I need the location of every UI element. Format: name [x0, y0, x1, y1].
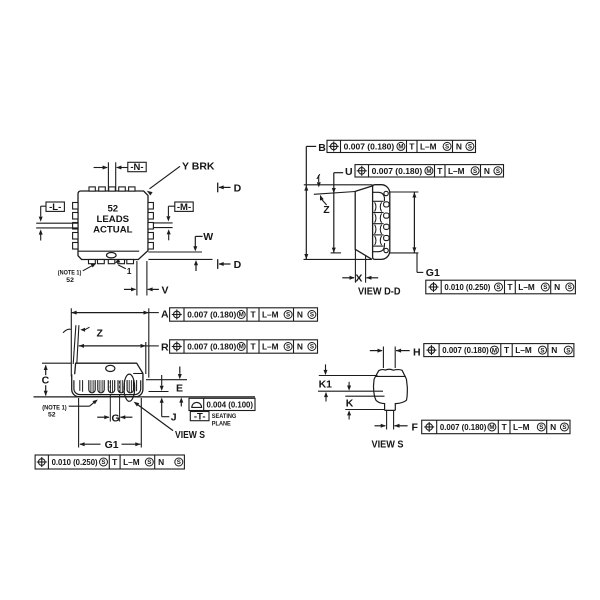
svg-text:M: M [398, 144, 403, 151]
svg-text:Z: Z [323, 204, 330, 216]
R arrow left [79, 344, 84, 348]
svg-text:S: S [566, 347, 570, 354]
E upper reference line [146, 379, 187, 381]
V dimension arrows [124, 288, 136, 290]
B label leader [306, 145, 316, 147]
F extension line right [393, 411, 395, 430]
U bottom extension line [331, 252, 341, 254]
svg-text:E: E [176, 382, 183, 394]
svg-text:T: T [437, 166, 443, 176]
left lead width lines [36, 222, 77, 224]
Z tick [317, 174, 320, 179]
A arrow right [144, 311, 149, 315]
H extension line right [394, 347, 396, 369]
-M- leader [168, 205, 174, 207]
NOTE 1 leader (front view) [69, 405, 90, 407]
A dimension line [71, 312, 149, 314]
-N- extension line right [115, 162, 117, 190]
K mid reference line [345, 395, 384, 397]
X extension line right [365, 256, 367, 283]
G extension line left (solid) [109, 397, 111, 422]
G1 bottom extension line [390, 252, 418, 254]
svg-text:L–M: L–M [262, 310, 279, 320]
svg-text:T: T [507, 282, 513, 292]
svg-text:N: N [158, 457, 164, 467]
svg-text:B: B [318, 142, 326, 154]
svg-text:S: S [101, 459, 105, 466]
K upper arrow [348, 382, 350, 386]
feature control frame F [422, 420, 570, 434]
svg-text:L–M: L–M [262, 342, 279, 352]
svg-text:N: N [554, 282, 560, 292]
svg-text:-T-: -T- [194, 411, 206, 422]
Z draft lines front view [73, 325, 76, 364]
svg-text:52: 52 [48, 412, 56, 419]
G1 dimension line [413, 192, 415, 253]
svg-text:M: M [426, 168, 431, 175]
datum -L- box [46, 202, 64, 211]
svg-text:SEATING: SEATING [212, 413, 237, 420]
svg-text:G: G [112, 412, 120, 424]
W lower arrow [194, 260, 198, 265]
feature control frame R [170, 340, 318, 353]
view S lead tip [385, 409, 396, 412]
svg-text:X: X [355, 272, 362, 284]
-N- dimension arrows [94, 167, 108, 169]
front view pin1 ellipse on top [106, 365, 115, 371]
top view left-side leads [73, 203, 78, 210]
svg-text:N: N [484, 166, 490, 176]
svg-text:L–M: L–M [515, 345, 532, 355]
svg-text:L–M: L–M [123, 457, 140, 467]
G extension line right (dashed) [119, 381, 121, 397]
U label leader [334, 172, 343, 174]
svg-text:W: W [203, 231, 213, 243]
C top extension line [42, 362, 72, 364]
svg-text:S: S [539, 424, 543, 431]
Z upper arrow [318, 175, 320, 182]
svg-text:S: S [177, 459, 181, 466]
V extension line right [146, 261, 148, 296]
svg-text:0.004 (0.100): 0.004 (0.100) [207, 400, 254, 410]
feature control frame U [355, 165, 504, 177]
svg-text:D: D [234, 182, 242, 194]
C arrow down [44, 391, 48, 396]
svg-text:0.010 (0.250): 0.010 (0.250) [52, 457, 98, 467]
Z arrow front view [80, 328, 85, 332]
front view body outline [74, 363, 143, 380]
A extension line left [70, 308, 72, 376]
front view corner lead stubs [80, 380, 83, 392]
svg-text:S: S [543, 284, 547, 291]
right lead width lower arrow [167, 229, 171, 234]
svg-text:VIEW S: VIEW S [175, 430, 205, 441]
svg-text:D: D [234, 259, 242, 271]
U dimension line [333, 173, 335, 253]
H extension line left [382, 347, 384, 369]
G1 label leader [416, 253, 418, 273]
svg-text:M: M [239, 312, 244, 319]
J upper reference line [149, 391, 169, 393]
Z slanted reference line [314, 192, 355, 195]
svg-text:T: T [112, 457, 118, 467]
X dimension arrows [342, 277, 354, 279]
svg-text:T: T [502, 422, 508, 432]
-L- leader [41, 205, 46, 207]
feature control frame bottom left [35, 455, 184, 469]
G dimension arrows [97, 416, 109, 418]
view D-D middle lead necks [375, 202, 376, 211]
view D-D middle lead feet tabs [384, 202, 390, 207]
boat inner line [74, 380, 141, 394]
svg-text:K: K [346, 397, 354, 409]
svg-text:R: R [161, 342, 169, 354]
svg-text:S: S [496, 284, 500, 291]
svg-text:-M-: -M- [177, 202, 191, 213]
top view bottom-side leads [89, 260, 96, 264]
G1 arrow up [412, 192, 416, 197]
top view top-side leads [89, 187, 95, 191]
svg-text:VIEW S: VIEW S [372, 439, 404, 450]
B arrow down [304, 254, 308, 259]
svg-text:Y BRK: Y BRK [182, 160, 215, 172]
K1 upper arrow [325, 364, 327, 370]
svg-text:-N-: -N- [130, 162, 143, 173]
K1 upper reference line [319, 375, 378, 377]
svg-text:U: U [345, 166, 353, 178]
section D upper tick [217, 183, 219, 193]
F extension line left [386, 411, 388, 430]
V extension line left [136, 261, 138, 296]
C arrow up [44, 365, 48, 370]
view D-D bottom lead hook inner line [373, 243, 385, 252]
svg-text:F: F [412, 421, 419, 433]
svg-text:S: S [310, 344, 314, 351]
svg-text:0.007 (0.180): 0.007 (0.180) [187, 310, 236, 320]
svg-text:Z: Z [97, 328, 104, 340]
W lower reference line [148, 258, 212, 260]
G extension line right (solid) [119, 397, 121, 422]
svg-text:N: N [550, 422, 556, 432]
svg-text:M: M [492, 347, 497, 354]
feature control frame A [170, 308, 318, 321]
G1 top extension line [390, 191, 418, 193]
front view body front-top edge [133, 373, 143, 375]
top view package body [78, 191, 148, 260]
R dimension line [79, 345, 146, 347]
front G1 extension line left [78, 398, 80, 448]
view S lead body sides [374, 379, 385, 410]
VIEW S indicator ellipse [124, 374, 135, 401]
svg-text:L–M: L–M [448, 166, 465, 176]
svg-text:M: M [239, 344, 244, 351]
svg-text:L–M: L–M [513, 422, 530, 432]
view D-D middle lead row lines [373, 200, 384, 202]
svg-text:0.007 (0.180): 0.007 (0.180) [442, 345, 489, 355]
front view lead row boat outline [72, 374, 143, 396]
svg-text:H: H [413, 346, 421, 358]
B dimension line [305, 146, 307, 259]
section D lower tick [217, 259, 219, 269]
datum -N- box [128, 162, 146, 171]
svg-text:S: S [445, 144, 449, 151]
svg-text:T: T [409, 142, 415, 152]
svg-text:N: N [456, 142, 462, 152]
svg-text:K1: K1 [319, 378, 333, 390]
svg-text:PLANE: PLANE [212, 420, 231, 427]
svg-text:J: J [171, 412, 177, 424]
svg-text:S: S [540, 347, 544, 354]
-N- extension line left [107, 162, 109, 190]
svg-text:52: 52 [66, 277, 74, 284]
svg-text:0.007 (0.180): 0.007 (0.180) [187, 342, 236, 352]
svg-text:S: S [286, 312, 290, 319]
W leader [195, 235, 202, 237]
feature control frame H [424, 344, 574, 357]
svg-text:VIEW D-D: VIEW D-D [358, 287, 401, 298]
view D-D top lead hook inner line [373, 192, 385, 201]
NOTE 1 leader (top view) [83, 265, 93, 271]
U arrow upper [332, 188, 336, 193]
G extension line left (dashed) [109, 381, 111, 397]
K lower reference line [345, 409, 384, 411]
A arrow left [71, 311, 76, 315]
J upper arrow [161, 375, 163, 386]
B top extension line [304, 184, 373, 186]
view D-D body [355, 186, 372, 259]
svg-text:N: N [551, 345, 557, 355]
X extension line left [354, 250, 356, 283]
svg-text:S: S [473, 168, 477, 175]
svg-text:0.010 (0.250): 0.010 (0.250) [444, 282, 490, 292]
F dimension arrows [375, 425, 386, 427]
svg-text:S: S [562, 424, 566, 431]
feature control frame G1 [426, 280, 576, 294]
svg-text:0.007 (0.180): 0.007 (0.180) [372, 166, 423, 176]
svg-text:S: S [496, 168, 500, 175]
svg-text:N: N [297, 310, 303, 320]
Z angle arc [63, 329, 71, 333]
svg-text:ACTUAL: ACTUAL [93, 224, 133, 235]
svg-text:(NOTE 1): (NOTE 1) [58, 270, 82, 277]
E lower arrow [179, 397, 183, 402]
R arrow right [141, 344, 146, 348]
flatness frame [189, 398, 255, 410]
front G1 dimension arrows [80, 443, 101, 445]
svg-text:T: T [250, 310, 256, 320]
feature control frame B [327, 140, 476, 152]
K1 lower reference line [318, 390, 383, 392]
view S dome base line [375, 375, 406, 377]
top view right-side leads [148, 203, 153, 210]
B arrow up [304, 185, 308, 190]
svg-text:1: 1 [127, 266, 132, 276]
left lead width lower arrow [39, 229, 43, 234]
svg-text:S: S [147, 459, 151, 466]
svg-text:T: T [250, 342, 256, 352]
svg-text:0.007 (0.180): 0.007 (0.180) [344, 142, 395, 152]
B bottom extension line [304, 258, 372, 260]
pin 1 index ellipse [107, 253, 117, 258]
svg-text:0.007 (0.180): 0.007 (0.180) [440, 422, 487, 432]
svg-text:L–M: L–M [518, 282, 535, 292]
svg-text:(NOTE 1): (NOTE 1) [42, 404, 66, 411]
svg-text:N: N [297, 342, 303, 352]
view S lead dome [374, 369, 406, 379]
front view J-leads [89, 380, 95, 393]
C dimension line [45, 366, 47, 376]
E upper arrow [179, 367, 181, 374]
Y BRK leader arrow [150, 166, 181, 189]
svg-text:C: C [42, 375, 50, 387]
A extension line right [148, 308, 150, 377]
datum -T- box [190, 412, 209, 421]
VIEW S leader [136, 404, 173, 431]
H dimension arrows [370, 350, 382, 352]
R extension line right [145, 342, 147, 374]
svg-text:S: S [286, 344, 290, 351]
G1 arrow down [412, 247, 416, 252]
svg-text:V: V [162, 284, 169, 296]
front G1 extension line right [140, 398, 142, 448]
view D-D lead stack outline [373, 185, 390, 260]
svg-text:S: S [310, 312, 314, 319]
J lower arrow and leader [160, 398, 164, 403]
W upper reference line [148, 251, 202, 253]
svg-text:L–M: L–M [420, 142, 437, 152]
datum -M- box [175, 202, 193, 211]
svg-text:-L-: -L- [49, 202, 61, 213]
svg-text:52: 52 [107, 203, 118, 214]
svg-text:T: T [504, 345, 510, 355]
U arrow lower [332, 248, 336, 253]
Z lower arrow and leader [320, 195, 324, 201]
svg-text:M: M [489, 424, 494, 431]
K lower arrow [347, 410, 351, 415]
svg-text:G1: G1 [105, 439, 119, 451]
svg-text:A: A [161, 308, 169, 320]
right lead width lines [153, 222, 173, 224]
svg-text:S: S [568, 284, 572, 291]
seating plane line [34, 396, 256, 398]
svg-text:G1: G1 [426, 267, 440, 279]
pin 1 leader [118, 265, 126, 269]
svg-text:S: S [468, 144, 472, 151]
K1 lower arrow [324, 392, 328, 397]
top view body inner bottom line [78, 250, 139, 252]
